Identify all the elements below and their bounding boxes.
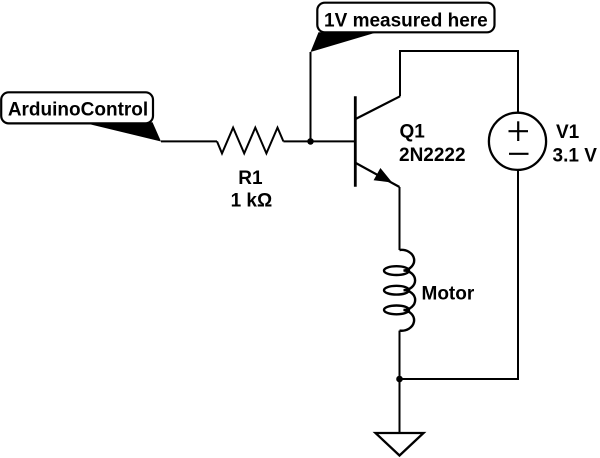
svg-text:3.1 V: 3.1 V — [553, 145, 598, 166]
wire: emitter to motor top — [399, 187, 401, 250]
junction node at base wire — [307, 138, 314, 145]
svg-text:1V measured here: 1V measured here — [324, 11, 488, 32]
wire: V1 top stub — [517, 50, 519, 113]
svg-text:ArduinoControl: ArduinoControl — [8, 100, 148, 121]
inductor Motor — [384, 250, 415, 331]
collector diagonal — [356, 96, 400, 119]
wire: top horizontal collector to V1 — [399, 50, 518, 52]
minus sign — [509, 153, 529, 155]
base bar — [354, 96, 357, 187]
svg-text:Q1: Q1 — [400, 122, 426, 143]
svg-text:R1: R1 — [238, 168, 263, 189]
ground — [376, 433, 424, 456]
svg-text:V1: V1 — [556, 122, 580, 143]
emitter arrow — [374, 168, 393, 183]
flag ArduinoControl — [1, 92, 161, 141]
svg-text:1 kΩ: 1 kΩ — [231, 191, 273, 212]
transistor Q1 2N2222 — [355, 96, 400, 187]
wire: ArduinoControl flag tip to resistor R1 left terminal — [161, 140, 217, 142]
wire: node to ground symbol — [399, 379, 401, 433]
wire: collector riser — [399, 51, 401, 96]
junction node at bottom rail — [396, 376, 403, 383]
voltage source V1 — [489, 113, 546, 170]
resistor R1 — [217, 128, 283, 154]
wire: resistor R1 right terminal to transistor Q1 base — [283, 140, 355, 142]
wire: 1V measured here flag down to base node — [310, 52, 312, 141]
wire: bottom rail — [400, 378, 520, 380]
svg-text:2N2222: 2N2222 — [399, 145, 466, 166]
svg-text:Motor: Motor — [422, 284, 475, 305]
emitter diagonal — [356, 163, 400, 187]
wire: motor bottom to ground node — [399, 331, 401, 379]
wire: V1 bottom stub down to bottom rail — [517, 170, 519, 380]
plus sign — [509, 130, 529, 132]
flag 1V measured here — [311, 3, 495, 52]
